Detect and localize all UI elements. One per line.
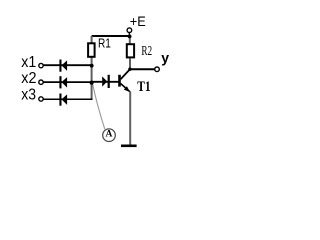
svg-text:R2: R2: [141, 43, 152, 58]
svg-text:T1: T1: [137, 79, 150, 95]
svg-text:+E: +E: [130, 13, 146, 29]
svg-text:R1: R1: [98, 36, 111, 51]
svg-text:x2: x2: [21, 70, 36, 87]
svg-text:y: y: [161, 50, 169, 66]
svg-text:x3: x3: [21, 87, 36, 104]
svg-text:x1: x1: [21, 54, 36, 71]
svg-text:A: A: [105, 130, 112, 140]
